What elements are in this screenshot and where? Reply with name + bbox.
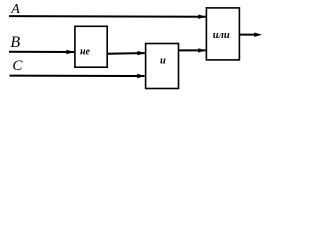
svg-text:или: или <box>213 30 230 41</box>
wire C to AND gate <box>10 75 145 77</box>
NOT gate box U1 <box>75 26 107 67</box>
svg-text:и: и <box>160 56 166 67</box>
wire B to NOT gate <box>9 51 74 53</box>
wire NOT output to AND gate <box>107 52 145 55</box>
svg-text:не: не <box>80 47 91 58</box>
svg-text:A: A <box>10 2 20 17</box>
wire AND output to OR gate <box>179 49 206 51</box>
svg-text:B: B <box>10 34 20 51</box>
OR gate box U3 <box>206 8 239 60</box>
output wire <box>239 34 258 36</box>
wire A to OR gate <box>9 15 206 18</box>
svg-text:C: C <box>12 58 23 74</box>
AND gate box U2 <box>146 44 179 89</box>
